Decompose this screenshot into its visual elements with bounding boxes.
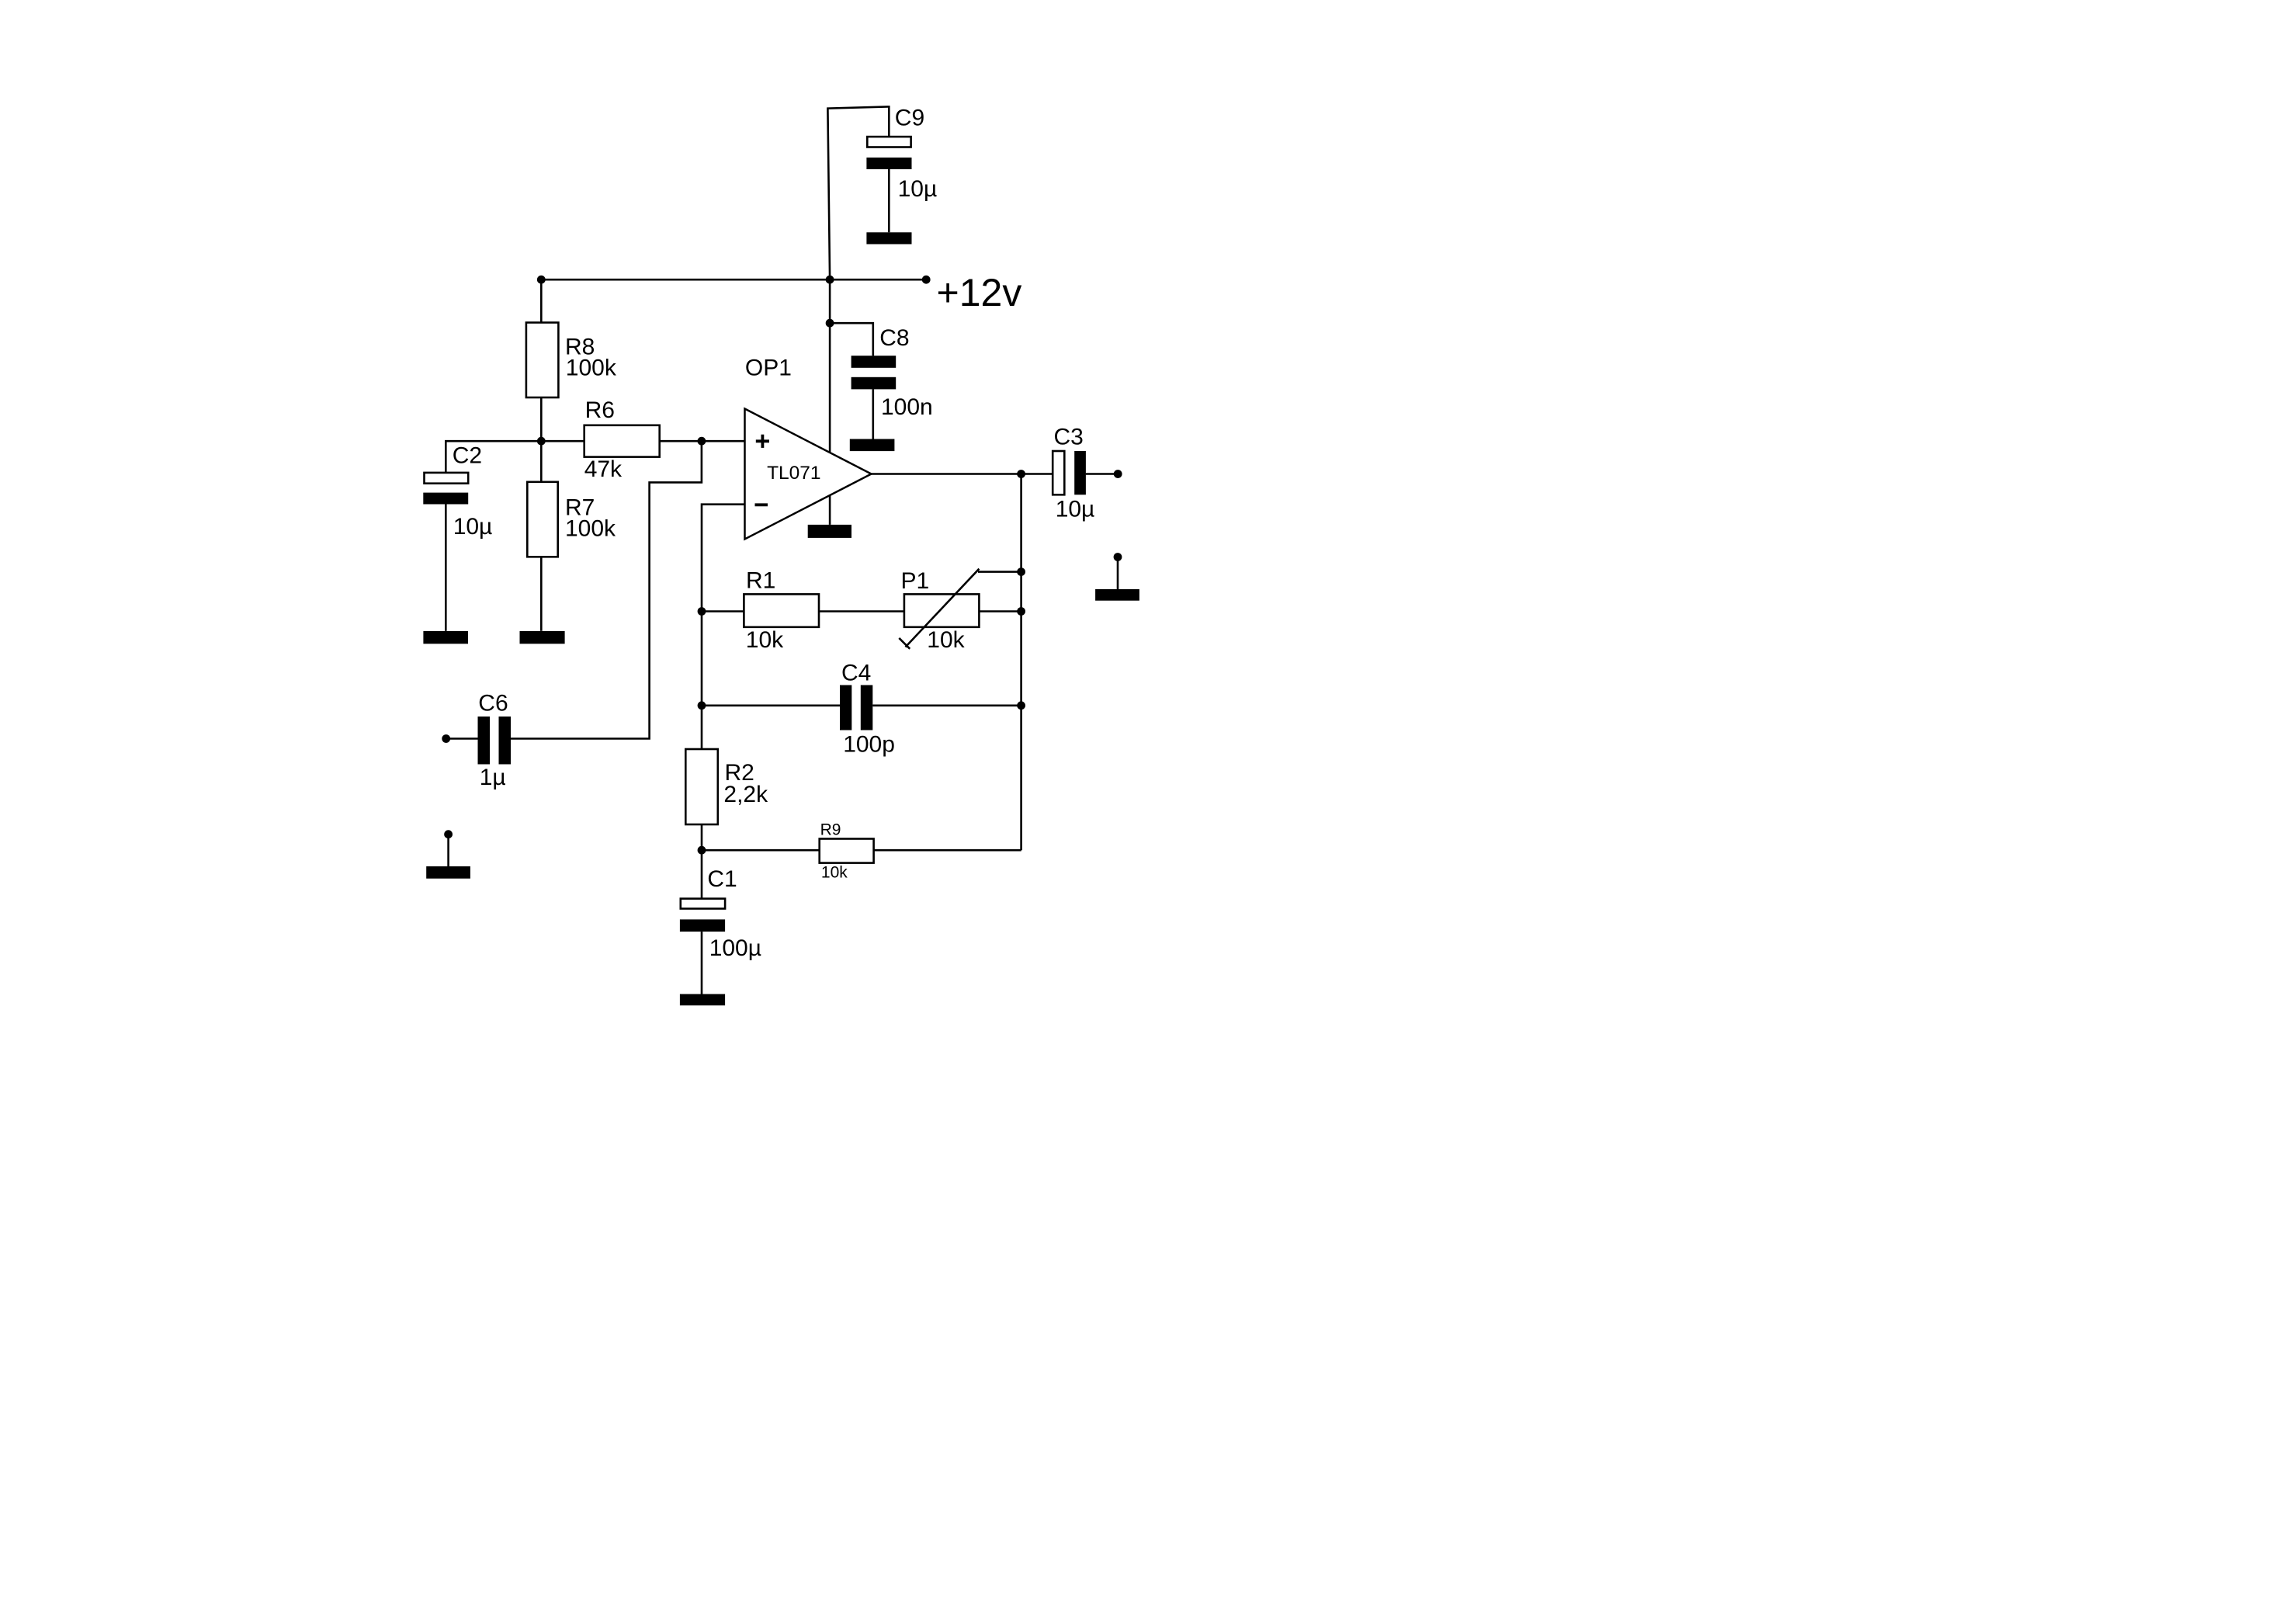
capacitor C1 bbox=[680, 899, 725, 994]
svg-text:10µ: 10µ bbox=[453, 514, 493, 540]
capacitor C3 bbox=[1053, 451, 1118, 494]
svg-text:R1: R1 bbox=[746, 568, 775, 594]
wire plus row to C2 bbox=[446, 441, 541, 473]
svg-text:TL071: TL071 bbox=[767, 463, 820, 484]
svg-text:C2: C2 bbox=[453, 443, 482, 469]
capacitor C6 bbox=[446, 717, 511, 765]
node P1 right junction bbox=[1017, 607, 1025, 616]
svg-text:+12v: +12v bbox=[937, 271, 1022, 314]
wire C8 branch bbox=[830, 323, 873, 356]
wire power column up to C9 top bbox=[827, 106, 889, 279]
wire +12v rail bbox=[541, 279, 926, 281]
svg-text:C6: C6 bbox=[478, 691, 508, 717]
op-amp minus sign bbox=[755, 503, 768, 506]
op-amp U1 triangle bbox=[745, 409, 872, 540]
wire R9 row left bbox=[702, 849, 820, 852]
capacitor C2 bbox=[423, 473, 468, 631]
node rail/power-column junction bbox=[826, 276, 834, 284]
svg-text:10k: 10k bbox=[746, 627, 784, 653]
node output terminal bbox=[1114, 470, 1122, 478]
node R9 row junction bbox=[698, 846, 706, 855]
wire terminal to ground bbox=[447, 835, 449, 866]
svg-text:1µ: 1µ bbox=[480, 765, 506, 790]
svg-text:10µ: 10µ bbox=[898, 176, 938, 202]
wire junction to R7 bbox=[540, 441, 543, 482]
ground below C2 bbox=[423, 631, 468, 644]
svg-text:10k: 10k bbox=[927, 627, 965, 653]
wire C4 row right bbox=[872, 704, 1021, 706]
wire plus node down-jog to C6 column bbox=[511, 441, 702, 738]
svg-text:R6: R6 bbox=[585, 397, 615, 423]
node input ground terminal bbox=[444, 830, 453, 838]
node plus-row/R8/R7/C2 junction bbox=[537, 437, 546, 446]
node wiper junction bbox=[1017, 567, 1025, 576]
svg-text:47k: 47k bbox=[584, 456, 623, 482]
wire R1 row left bbox=[702, 610, 744, 612]
svg-text:100k: 100k bbox=[565, 516, 616, 542]
node plus input junction bbox=[698, 437, 706, 446]
wire R6 to plus node bbox=[660, 440, 702, 442]
svg-text:C8: C8 bbox=[879, 325, 909, 351]
wire R7 to ground bbox=[540, 557, 543, 630]
svg-text:100k: 100k bbox=[566, 356, 617, 381]
svg-text:OP1: OP1 bbox=[745, 356, 792, 381]
resistor R1 bbox=[744, 594, 819, 626]
wire op-amp minus input bbox=[702, 505, 745, 749]
wire terminal to output ground bbox=[1117, 557, 1119, 590]
node C8 branch junction bbox=[826, 319, 834, 328]
ground below R7 bbox=[520, 631, 565, 644]
wire plus node to op-amp bbox=[702, 440, 745, 442]
ground below C9 bbox=[866, 232, 911, 244]
resistor R2 bbox=[685, 749, 718, 824]
wire rail to R8 bbox=[540, 279, 543, 322]
svg-text:100p: 100p bbox=[843, 732, 895, 758]
svg-text:2,2k: 2,2k bbox=[723, 782, 768, 807]
svg-text:10µ: 10µ bbox=[1056, 497, 1095, 522]
wire plus row junction to R6 bbox=[541, 440, 584, 442]
node rail/R8 junction bbox=[537, 276, 546, 284]
node C6 input terminal bbox=[442, 734, 450, 743]
wire C1 top lead bbox=[701, 850, 703, 898]
svg-text:100n: 100n bbox=[881, 394, 933, 420]
svg-text:C4: C4 bbox=[841, 661, 871, 686]
ground below op-amp bbox=[808, 525, 851, 538]
svg-text:C9: C9 bbox=[895, 105, 924, 130]
svg-text:P1: P1 bbox=[901, 568, 930, 594]
ground input reference bbox=[426, 866, 470, 879]
wire feedback C4 row left bbox=[702, 704, 840, 706]
node C4 left junction bbox=[698, 701, 706, 710]
ground below C8 bbox=[850, 439, 895, 452]
node feedback/R1 junction bbox=[698, 607, 706, 616]
resistor R8 bbox=[526, 323, 559, 398]
svg-text:10k: 10k bbox=[821, 863, 848, 881]
resistor R9 bbox=[820, 839, 874, 863]
wire R2 to R9 row bbox=[701, 824, 703, 850]
wire R1 to P1 bbox=[819, 610, 904, 612]
svg-text:C3: C3 bbox=[1054, 425, 1084, 450]
op-amp plus sign bbox=[756, 435, 769, 448]
node C4 right junction bbox=[1017, 701, 1025, 710]
capacitor C9 bbox=[866, 137, 911, 232]
wire output column down to R9 row bbox=[1020, 474, 1022, 851]
wire R9 to output column bbox=[874, 849, 1021, 852]
svg-text:100µ: 100µ bbox=[709, 935, 761, 961]
resistor R7 bbox=[527, 482, 557, 557]
node +12v terminal bbox=[922, 276, 931, 284]
svg-text:R9: R9 bbox=[820, 821, 841, 838]
ground below C1 bbox=[680, 994, 725, 1006]
wire op-amp output row bbox=[872, 473, 1053, 475]
svg-text:C1: C1 bbox=[707, 866, 737, 892]
wire R8 to plus row bbox=[540, 397, 543, 441]
wire P1 right to output column bbox=[979, 610, 1021, 612]
resistor R6 bbox=[584, 425, 660, 457]
capacitor C8 bbox=[851, 356, 897, 439]
wire P1 wiper to output column bbox=[978, 571, 1021, 573]
capacitor C4 bbox=[840, 685, 872, 730]
node output ground terminal bbox=[1114, 553, 1122, 561]
ground output reference bbox=[1095, 589, 1139, 601]
potentiometer P1 bbox=[899, 569, 979, 649]
wire power column rail to opamp ground bbox=[829, 279, 831, 525]
node output junction bbox=[1017, 470, 1025, 478]
